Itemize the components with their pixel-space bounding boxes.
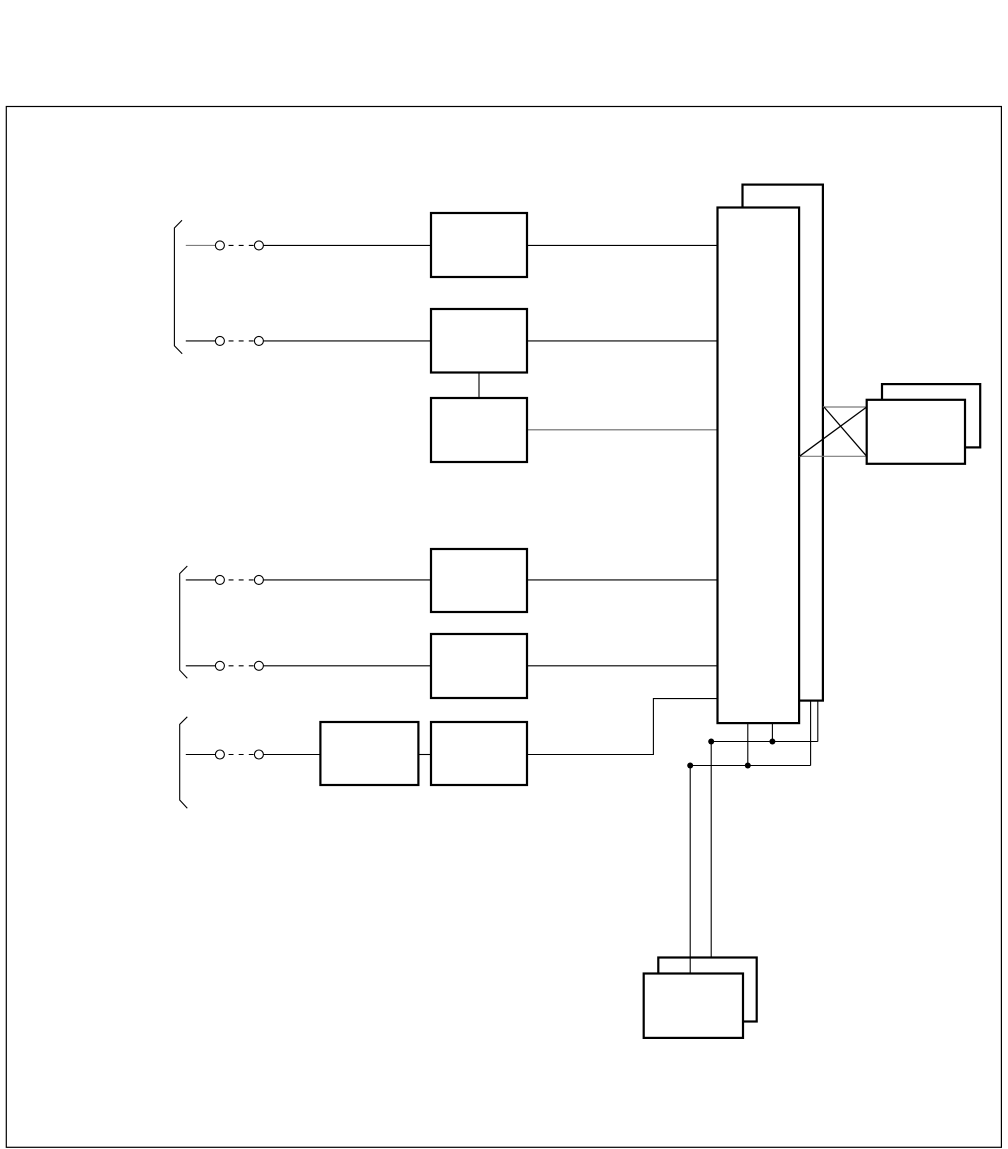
wire back-rect pin 2 down (810, 701, 812, 766)
comm link bottom line (799, 455, 867, 457)
block B3 (431, 398, 527, 462)
storage front box (644, 974, 743, 1038)
wire B6b to bus (bent) (527, 699, 718, 755)
wire bus pin 2 down (771, 723, 773, 741)
terminal row1 right (254, 241, 263, 250)
wire row6 dashed (229, 754, 254, 756)
remote unit back box (882, 384, 980, 447)
terminal row4 right (254, 575, 263, 584)
wire row2 dashed (229, 340, 254, 342)
bracket group B (inputs 4-5) (180, 566, 188, 678)
wire row5 stub (186, 665, 216, 667)
comm link diagonal B (800, 407, 867, 456)
wire horizontal net H1 (711, 741, 818, 743)
bus unit front rectangle (718, 208, 800, 724)
wire back-rect pin 1 down (817, 701, 819, 742)
wire B2 to bus (527, 340, 718, 342)
block B4 (431, 549, 527, 612)
wire B3 to bus (527, 429, 718, 431)
wire H1 down to storage back box (710, 742, 712, 958)
wire row1 stub (186, 244, 216, 246)
wire row5 dashed (229, 665, 254, 667)
wire row4 to block B4 (263, 579, 431, 581)
terminal row1 left (215, 241, 224, 250)
terminal row6 left (215, 750, 224, 759)
remote unit front box (867, 400, 965, 464)
wire H2 down to storage front box (689, 766, 691, 974)
bracket group A (inputs 1-2) (174, 220, 182, 354)
wire row2 to block B2 (263, 340, 431, 342)
wire row2 stub (186, 340, 216, 342)
block B5 (431, 634, 527, 698)
wire B5 to bus (527, 665, 718, 667)
wire B6a to B6b (418, 754, 431, 756)
junction dot H2 mid (745, 763, 751, 769)
comm link diagonal A (824, 407, 867, 456)
junction dot H2 left (687, 763, 693, 769)
wire row4 stub (186, 579, 216, 581)
comm link top line (823, 406, 867, 408)
wire row6 stub (186, 754, 216, 756)
terminal row6 right (254, 750, 263, 759)
junction dot H1 left (708, 739, 714, 745)
wire row6 to block B6a (263, 754, 320, 756)
bus unit back rectangle (743, 185, 823, 701)
wire B1 to bus (527, 244, 718, 246)
wire row1 to block B1 (263, 244, 431, 246)
junction dot H1 mid (769, 739, 775, 745)
terminal row2 left (215, 336, 224, 345)
wire row4 dashed (229, 579, 254, 581)
wire row5 to block B5 (263, 665, 431, 667)
terminal row4 left (215, 575, 224, 584)
block B2 (431, 309, 527, 373)
terminal row5 right (254, 661, 263, 670)
wire horizontal net H2 (690, 765, 810, 767)
terminal row2 right (254, 336, 263, 345)
block B6b (431, 722, 527, 785)
wire bus pin 1 down (747, 723, 749, 765)
terminal row5 left (215, 661, 224, 670)
wire B4 to bus (527, 579, 718, 581)
storage back box (658, 958, 756, 1022)
wire B2 to B3 (478, 373, 480, 399)
block B6a (320, 722, 418, 785)
wire row1 dashed (229, 244, 254, 246)
block B1 (431, 213, 527, 277)
bracket group C (input 6) (180, 717, 188, 809)
